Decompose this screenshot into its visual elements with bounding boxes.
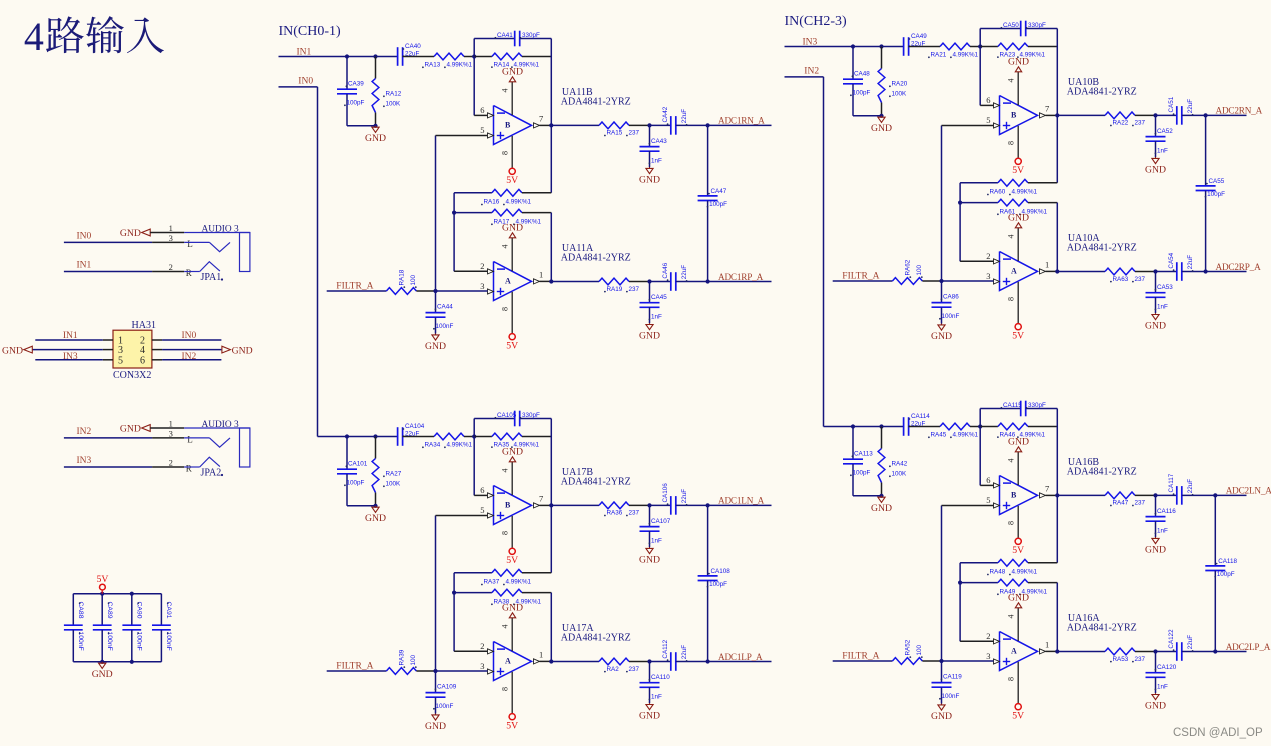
svg-text:1: 1 bbox=[1045, 260, 1049, 270]
svg-text:5V: 5V bbox=[96, 574, 108, 585]
svg-text:237: 237 bbox=[629, 286, 640, 293]
svg-text:RA21: RA21 bbox=[931, 52, 947, 59]
svg-text:IN3: IN3 bbox=[803, 38, 818, 48]
svg-text:GND: GND bbox=[931, 711, 952, 722]
svg-text:GND: GND bbox=[639, 711, 660, 722]
svg-text:RA18: RA18 bbox=[399, 269, 406, 285]
svg-text:2: 2 bbox=[480, 261, 484, 271]
svg-text:IN1: IN1 bbox=[63, 331, 78, 341]
svg-text:1: 1 bbox=[169, 223, 173, 233]
svg-text:RA39: RA39 bbox=[399, 649, 406, 665]
svg-text:ADC1LP_A: ADC1LP_A bbox=[718, 652, 763, 662]
svg-text:237: 237 bbox=[1135, 500, 1146, 507]
svg-text:237: 237 bbox=[629, 666, 640, 673]
svg-text:8: 8 bbox=[501, 307, 510, 311]
svg-text:HA31: HA31 bbox=[132, 320, 156, 331]
svg-text:237: 237 bbox=[1135, 120, 1146, 127]
svg-text:RA52: RA52 bbox=[905, 639, 912, 655]
svg-text:4: 4 bbox=[501, 469, 510, 473]
svg-text:CSDN @ADI_OP: CSDN @ADI_OP bbox=[1173, 727, 1263, 739]
svg-text:RA15: RA15 bbox=[607, 130, 623, 137]
svg-text:ADA4841-2YRZ: ADA4841-2YRZ bbox=[561, 253, 631, 264]
svg-text:CA107: CA107 bbox=[651, 518, 671, 525]
svg-text:3: 3 bbox=[986, 651, 990, 661]
svg-text:1: 1 bbox=[169, 418, 173, 428]
svg-text:CA89: CA89 bbox=[106, 602, 113, 619]
svg-text:IN0: IN0 bbox=[182, 331, 197, 341]
svg-text:IN(CH2-3): IN(CH2-3) bbox=[785, 14, 848, 29]
svg-text:CA119: CA119 bbox=[943, 674, 962, 681]
svg-text:ADA4841-2YRZ: ADA4841-2YRZ bbox=[561, 633, 631, 644]
svg-text:ADA4841-2YRZ: ADA4841-2YRZ bbox=[1067, 243, 1137, 254]
svg-text:IN1: IN1 bbox=[297, 48, 312, 58]
svg-text:RA2: RA2 bbox=[607, 666, 620, 673]
svg-text:CA55: CA55 bbox=[1209, 178, 1225, 185]
svg-text:A: A bbox=[1011, 266, 1017, 275]
svg-text:237: 237 bbox=[1135, 276, 1146, 283]
svg-text:CA44: CA44 bbox=[437, 304, 453, 311]
svg-text:4: 4 bbox=[1007, 615, 1016, 619]
svg-text:22uF: 22uF bbox=[1187, 99, 1194, 114]
svg-text:GND: GND bbox=[639, 331, 660, 342]
svg-text:4.99K%1: 4.99K%1 bbox=[506, 579, 532, 586]
svg-text:CA49: CA49 bbox=[911, 33, 927, 40]
svg-text:ADA4841-2YRZ: ADA4841-2YRZ bbox=[561, 97, 631, 108]
svg-text:RA20: RA20 bbox=[892, 81, 908, 88]
svg-text:L: L bbox=[187, 434, 193, 444]
svg-text:ADA4841-2YRZ: ADA4841-2YRZ bbox=[1067, 623, 1137, 634]
svg-text:RA62: RA62 bbox=[905, 259, 912, 275]
svg-text:ADC2RP_A: ADC2RP_A bbox=[1216, 262, 1262, 272]
svg-text:CA91: CA91 bbox=[165, 602, 172, 619]
svg-text:CA101: CA101 bbox=[348, 461, 368, 468]
svg-text:GND: GND bbox=[425, 721, 446, 732]
svg-text:22uF: 22uF bbox=[681, 645, 688, 660]
svg-text:CA47: CA47 bbox=[711, 188, 727, 195]
svg-text:4: 4 bbox=[501, 625, 510, 629]
svg-text:ADC1RP_A: ADC1RP_A bbox=[718, 272, 764, 282]
svg-text:RA22: RA22 bbox=[1113, 120, 1129, 127]
svg-text:2: 2 bbox=[169, 262, 173, 272]
svg-text:5: 5 bbox=[480, 125, 484, 135]
svg-text:GND: GND bbox=[1008, 592, 1029, 603]
svg-text:3: 3 bbox=[480, 281, 484, 291]
svg-text:1nF: 1nF bbox=[1157, 684, 1168, 691]
svg-text:5: 5 bbox=[118, 355, 123, 366]
svg-text:FILTR_A: FILTR_A bbox=[336, 282, 373, 292]
svg-text:JPA2: JPA2 bbox=[201, 467, 222, 478]
svg-text:3: 3 bbox=[480, 661, 484, 671]
svg-text:L: L bbox=[187, 239, 193, 249]
svg-text:100K: 100K bbox=[386, 101, 402, 108]
svg-text:ADA4841-2YRZ: ADA4841-2YRZ bbox=[1067, 87, 1137, 98]
svg-text:R: R bbox=[186, 464, 192, 474]
svg-text:ADC2LN_A: ADC2LN_A bbox=[1226, 486, 1271, 496]
svg-text:5V: 5V bbox=[506, 721, 518, 732]
svg-text:IN2: IN2 bbox=[182, 352, 197, 362]
svg-text:4.99K%1: 4.99K%1 bbox=[953, 52, 979, 59]
svg-text:GND: GND bbox=[931, 331, 952, 342]
svg-text:GND: GND bbox=[639, 174, 660, 185]
svg-text:100pF: 100pF bbox=[853, 90, 871, 97]
svg-text:R: R bbox=[186, 268, 192, 278]
svg-text:3: 3 bbox=[169, 429, 173, 439]
svg-text:IN1: IN1 bbox=[77, 261, 92, 271]
svg-text:6: 6 bbox=[986, 95, 990, 105]
svg-text:GND: GND bbox=[1145, 701, 1166, 712]
svg-text:CA110: CA110 bbox=[651, 674, 670, 681]
svg-text:RA60: RA60 bbox=[990, 189, 1006, 196]
svg-text:RA34: RA34 bbox=[425, 442, 441, 449]
svg-text:100pF: 100pF bbox=[1207, 191, 1225, 198]
svg-text:CA108: CA108 bbox=[711, 568, 731, 575]
svg-text:5V: 5V bbox=[1012, 711, 1024, 722]
svg-text:GND: GND bbox=[502, 222, 523, 233]
svg-text:2: 2 bbox=[986, 251, 990, 261]
svg-text:330pF: 330pF bbox=[522, 412, 540, 419]
svg-text:5V: 5V bbox=[1012, 165, 1024, 176]
svg-text:GND: GND bbox=[639, 554, 660, 565]
svg-text:100: 100 bbox=[410, 274, 417, 285]
svg-text:CA42: CA42 bbox=[662, 106, 669, 122]
svg-text:GND: GND bbox=[92, 669, 113, 680]
svg-text:CA51: CA51 bbox=[1168, 96, 1175, 112]
svg-text:GND: GND bbox=[120, 424, 141, 435]
svg-text:CA46: CA46 bbox=[662, 262, 669, 278]
svg-text:4: 4 bbox=[24, 14, 44, 59]
svg-text:B: B bbox=[505, 500, 511, 509]
svg-text:8: 8 bbox=[501, 151, 510, 155]
svg-text:GND: GND bbox=[1145, 321, 1166, 332]
svg-text:4.99K%1: 4.99K%1 bbox=[506, 199, 532, 206]
svg-text:A: A bbox=[1011, 646, 1017, 655]
svg-text:RA45: RA45 bbox=[931, 432, 947, 439]
svg-text:8: 8 bbox=[501, 531, 510, 535]
svg-text:5: 5 bbox=[480, 505, 484, 515]
svg-text:330pF: 330pF bbox=[1028, 22, 1046, 29]
svg-text:1: 1 bbox=[1045, 640, 1049, 650]
svg-text:CA117: CA117 bbox=[1168, 473, 1175, 492]
svg-text:7: 7 bbox=[1045, 484, 1049, 494]
svg-text:100nF: 100nF bbox=[135, 632, 142, 651]
svg-text:IN0: IN0 bbox=[298, 77, 313, 87]
svg-text:100K: 100K bbox=[892, 471, 908, 478]
svg-text:100pF: 100pF bbox=[347, 100, 365, 107]
svg-text:4: 4 bbox=[501, 245, 510, 249]
svg-text:B: B bbox=[1011, 490, 1017, 499]
svg-text:IN0: IN0 bbox=[77, 232, 92, 242]
svg-text:4.99K%1: 4.99K%1 bbox=[447, 442, 473, 449]
svg-text:5V: 5V bbox=[506, 341, 518, 352]
svg-text:ADA4841-2YRZ: ADA4841-2YRZ bbox=[561, 477, 631, 488]
svg-text:GND: GND bbox=[1008, 212, 1029, 223]
svg-text:RA48: RA48 bbox=[990, 569, 1006, 576]
svg-text:CA45: CA45 bbox=[651, 294, 667, 301]
svg-text:CA106: CA106 bbox=[662, 483, 669, 503]
svg-text:8: 8 bbox=[1007, 521, 1016, 525]
svg-text:RA37: RA37 bbox=[484, 579, 500, 586]
svg-text:CA48: CA48 bbox=[854, 71, 870, 78]
svg-text:100nF: 100nF bbox=[106, 632, 113, 651]
svg-text:22uF: 22uF bbox=[1187, 255, 1194, 270]
svg-text:1nF: 1nF bbox=[651, 158, 662, 165]
svg-text:4.99K%1: 4.99K%1 bbox=[1012, 569, 1038, 576]
svg-text:8: 8 bbox=[1007, 297, 1016, 301]
svg-text:FILTR_A: FILTR_A bbox=[842, 652, 879, 662]
svg-text:7: 7 bbox=[539, 494, 543, 504]
svg-text:1: 1 bbox=[539, 270, 543, 280]
svg-text:GND: GND bbox=[871, 503, 892, 514]
svg-text:CA39: CA39 bbox=[348, 81, 364, 88]
svg-text:CA114: CA114 bbox=[911, 413, 930, 420]
svg-text:5V: 5V bbox=[506, 555, 518, 566]
svg-text:A: A bbox=[505, 656, 511, 665]
svg-text:8: 8 bbox=[1007, 677, 1016, 681]
svg-text:2: 2 bbox=[480, 641, 484, 651]
svg-text:1nF: 1nF bbox=[651, 538, 662, 545]
svg-text:IN2: IN2 bbox=[804, 67, 819, 77]
svg-text:B: B bbox=[505, 120, 511, 129]
svg-text:AUDIO 3: AUDIO 3 bbox=[202, 225, 240, 235]
svg-text:22uF: 22uF bbox=[1187, 635, 1194, 650]
svg-text:IN3: IN3 bbox=[77, 456, 92, 466]
svg-text:100pF: 100pF bbox=[709, 581, 727, 588]
svg-text:100: 100 bbox=[410, 654, 417, 665]
svg-text:ADC2LP_A: ADC2LP_A bbox=[1226, 642, 1271, 652]
svg-text:RA42: RA42 bbox=[892, 461, 908, 468]
svg-text:6: 6 bbox=[986, 475, 990, 485]
svg-text:4: 4 bbox=[1007, 459, 1016, 463]
svg-text:5V: 5V bbox=[1012, 331, 1024, 342]
svg-text:100pF: 100pF bbox=[853, 470, 871, 477]
svg-text:100pF: 100pF bbox=[709, 201, 727, 208]
svg-text:CA41: CA41 bbox=[497, 32, 513, 39]
svg-text:GND: GND bbox=[502, 66, 523, 77]
svg-text:GND: GND bbox=[502, 602, 523, 613]
svg-text:1nF: 1nF bbox=[1157, 148, 1168, 155]
svg-text:4: 4 bbox=[1007, 79, 1016, 83]
svg-text:CA43: CA43 bbox=[651, 138, 667, 145]
svg-text:4.99K%1: 4.99K%1 bbox=[1012, 189, 1038, 196]
svg-text:RA13: RA13 bbox=[425, 62, 441, 69]
svg-text:5V: 5V bbox=[506, 175, 518, 186]
svg-text:ADC1LN_A: ADC1LN_A bbox=[718, 496, 765, 506]
svg-text:237: 237 bbox=[629, 510, 640, 517]
svg-text:CA112: CA112 bbox=[662, 639, 669, 658]
svg-text:100nF: 100nF bbox=[165, 632, 172, 651]
svg-text:CA115: CA115 bbox=[1003, 402, 1022, 409]
svg-text:100nF: 100nF bbox=[436, 703, 454, 710]
svg-text:100K: 100K bbox=[892, 91, 908, 98]
svg-text:RA36: RA36 bbox=[607, 510, 623, 517]
svg-text:B: B bbox=[1011, 110, 1017, 119]
svg-text:ADC1RN_A: ADC1RN_A bbox=[718, 116, 765, 126]
svg-text:CA54: CA54 bbox=[1168, 252, 1175, 268]
svg-text:CA90: CA90 bbox=[135, 602, 142, 619]
svg-text:1nF: 1nF bbox=[1157, 304, 1168, 311]
svg-text:JPA1: JPA1 bbox=[201, 272, 222, 283]
svg-text:GND: GND bbox=[365, 513, 386, 524]
svg-text:100nF: 100nF bbox=[436, 323, 454, 330]
svg-text:ADA4841-2YRZ: ADA4841-2YRZ bbox=[1067, 467, 1137, 478]
svg-text:6: 6 bbox=[480, 105, 484, 115]
svg-text:4: 4 bbox=[1007, 235, 1016, 239]
svg-text:100nF: 100nF bbox=[942, 693, 960, 700]
svg-text:IN3: IN3 bbox=[63, 352, 78, 362]
svg-text:CA104: CA104 bbox=[405, 423, 425, 430]
svg-text:1nF: 1nF bbox=[651, 314, 662, 321]
svg-text:GND: GND bbox=[2, 346, 23, 357]
svg-text:FILTR_A: FILTR_A bbox=[336, 662, 373, 672]
svg-text:CA120: CA120 bbox=[1157, 664, 1177, 671]
svg-text:A: A bbox=[505, 276, 511, 285]
svg-text:5V: 5V bbox=[1012, 545, 1024, 556]
svg-text:GND: GND bbox=[1008, 436, 1029, 447]
svg-text:237: 237 bbox=[1135, 656, 1146, 663]
svg-text:CA88: CA88 bbox=[77, 602, 84, 619]
svg-text:FILTR_A: FILTR_A bbox=[842, 272, 879, 282]
svg-text:3: 3 bbox=[169, 233, 173, 243]
svg-text:CA122: CA122 bbox=[1168, 629, 1175, 649]
svg-text:GND: GND bbox=[871, 123, 892, 134]
svg-text:22uF: 22uF bbox=[681, 265, 688, 280]
svg-text:7: 7 bbox=[1045, 104, 1049, 114]
svg-text:5: 5 bbox=[986, 115, 990, 125]
svg-text:AUDIO 3: AUDIO 3 bbox=[202, 420, 240, 430]
svg-text:GND: GND bbox=[120, 228, 141, 239]
svg-text:RA47: RA47 bbox=[1113, 500, 1129, 507]
svg-text:4.99K%1: 4.99K%1 bbox=[953, 432, 979, 439]
svg-text:CA86: CA86 bbox=[943, 294, 959, 301]
svg-text:RA16: RA16 bbox=[484, 199, 500, 206]
svg-text:GND: GND bbox=[1145, 164, 1166, 175]
svg-text:6: 6 bbox=[480, 485, 484, 495]
svg-text:GND: GND bbox=[1145, 544, 1166, 555]
svg-text:330pF: 330pF bbox=[522, 32, 540, 39]
svg-text:GND: GND bbox=[502, 446, 523, 457]
svg-text:2: 2 bbox=[986, 631, 990, 641]
svg-text:CA50: CA50 bbox=[1003, 22, 1019, 29]
svg-text:6: 6 bbox=[140, 355, 145, 366]
svg-text:RA63: RA63 bbox=[1113, 276, 1129, 283]
svg-text:100pF: 100pF bbox=[1217, 571, 1235, 578]
svg-text:22uF: 22uF bbox=[681, 109, 688, 124]
svg-text:RA12: RA12 bbox=[386, 91, 402, 98]
svg-text:RA19: RA19 bbox=[607, 286, 623, 293]
svg-text:100: 100 bbox=[916, 264, 923, 275]
svg-text:GND: GND bbox=[232, 346, 253, 357]
svg-text:237: 237 bbox=[629, 130, 640, 137]
svg-text:22uF: 22uF bbox=[1187, 479, 1194, 494]
svg-text:4: 4 bbox=[501, 89, 510, 93]
svg-text:8: 8 bbox=[1007, 141, 1016, 145]
svg-text:RA27: RA27 bbox=[386, 471, 402, 478]
svg-text:5: 5 bbox=[986, 495, 990, 505]
svg-text:4.99K%1: 4.99K%1 bbox=[447, 62, 473, 69]
svg-text:CA40: CA40 bbox=[405, 43, 421, 50]
svg-text:CA116: CA116 bbox=[1157, 508, 1176, 515]
svg-text:22uF: 22uF bbox=[681, 489, 688, 504]
svg-text:IN(CH0-1): IN(CH0-1) bbox=[279, 24, 342, 39]
svg-text:CON3X2: CON3X2 bbox=[113, 370, 151, 381]
svg-text:CA52: CA52 bbox=[1157, 128, 1173, 135]
svg-text:1: 1 bbox=[539, 650, 543, 660]
svg-text:7: 7 bbox=[539, 114, 543, 124]
svg-text:GND: GND bbox=[365, 133, 386, 144]
svg-text:100pF: 100pF bbox=[347, 480, 365, 487]
svg-text:CA118: CA118 bbox=[1218, 558, 1237, 565]
svg-text:RA53: RA53 bbox=[1113, 656, 1129, 663]
svg-text:CA113: CA113 bbox=[854, 451, 873, 458]
svg-text:IN2: IN2 bbox=[77, 427, 92, 437]
svg-text:2: 2 bbox=[169, 457, 173, 467]
svg-text:1nF: 1nF bbox=[651, 694, 662, 701]
svg-text:GND: GND bbox=[1008, 56, 1029, 67]
svg-text:100nF: 100nF bbox=[942, 313, 960, 320]
svg-text:CA109: CA109 bbox=[437, 684, 457, 691]
svg-text:8: 8 bbox=[501, 687, 510, 691]
svg-text:3: 3 bbox=[986, 271, 990, 281]
svg-text:100: 100 bbox=[916, 644, 923, 655]
svg-text:CA53: CA53 bbox=[1157, 284, 1173, 291]
svg-text:330pF: 330pF bbox=[1028, 402, 1046, 409]
svg-text:100nF: 100nF bbox=[77, 632, 84, 651]
svg-text:ADC2RN_A: ADC2RN_A bbox=[1216, 106, 1263, 116]
svg-text:GND: GND bbox=[425, 341, 446, 352]
svg-text:100K: 100K bbox=[386, 481, 402, 488]
svg-text:1nF: 1nF bbox=[1157, 528, 1168, 535]
svg-text:CA105: CA105 bbox=[497, 412, 517, 419]
